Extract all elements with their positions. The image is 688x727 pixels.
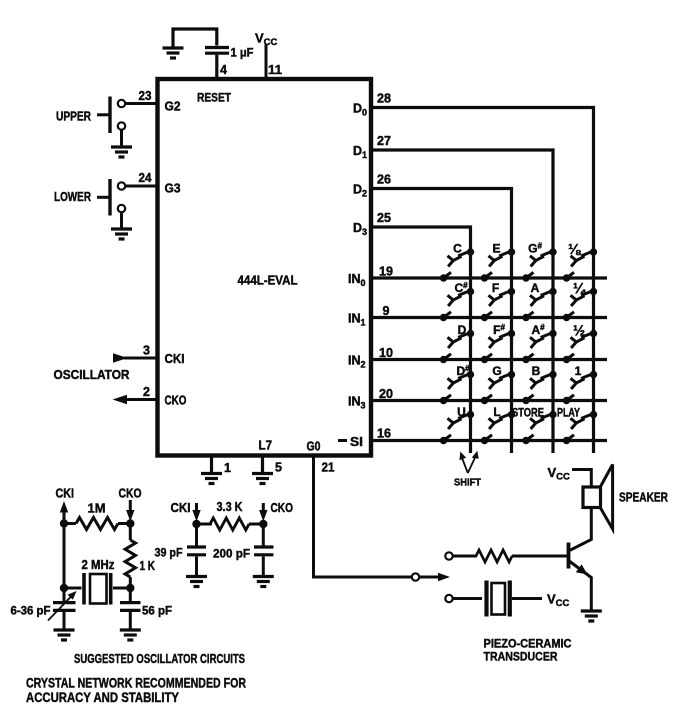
svg-text:2: 2 xyxy=(143,385,150,399)
wire node to resistor 3.3K xyxy=(197,523,213,526)
wire D2 to key matrix column 2 xyxy=(371,189,512,454)
wire SI key matrix row 5 xyxy=(371,439,607,442)
arrow CKI down to node xyxy=(195,503,198,512)
key switch PLAY xyxy=(563,411,597,444)
svg-text:CKI: CKI xyxy=(165,352,185,366)
wire IN0 key matrix row 1 xyxy=(371,276,607,279)
IC U1 444L-EVAL body xyxy=(158,79,372,456)
key switch B xyxy=(522,371,556,404)
svg-text:CKI: CKI xyxy=(171,501,191,515)
svg-text:RESET: RESET xyxy=(197,91,232,105)
wire CKO output xyxy=(126,398,158,401)
junction RC CKO node xyxy=(259,520,267,528)
wire switch UPPER to pin G2 xyxy=(125,102,157,105)
wire switch LOWER to pin G3 xyxy=(125,185,157,188)
svg-text:½: ½ xyxy=(573,324,585,340)
ground (200pF) xyxy=(253,577,274,587)
resistor R1 1M xyxy=(64,522,76,525)
pin 5 stub to ground xyxy=(261,457,264,473)
svg-text:L: L xyxy=(493,405,500,419)
svg-text:1: 1 xyxy=(224,461,231,475)
key switch 1/8 note xyxy=(563,248,597,281)
wire crystal right node to 56pF xyxy=(129,588,132,601)
crystal Y1 body xyxy=(90,574,107,604)
switch LOWER top terminal xyxy=(118,182,125,189)
wire CKI node to 39pF xyxy=(195,524,198,546)
ground (56pF) xyxy=(120,630,141,640)
wire oscillator input to CKI with arrow xyxy=(124,357,158,360)
transistor Q1 base bar xyxy=(567,543,571,569)
switch LOWER actuator stem xyxy=(97,196,110,199)
ground (pin 1) xyxy=(201,474,222,484)
wire CKO node to resistor 1K xyxy=(129,524,132,541)
svg-text:G0: G0 xyxy=(307,440,321,454)
svg-text:U: U xyxy=(457,405,466,419)
svg-text:G3: G3 xyxy=(165,181,181,196)
key switch C-sharp xyxy=(440,288,474,321)
key switch 1/4 note xyxy=(563,288,597,321)
arrow into CKI xyxy=(113,353,128,362)
switch UPPER top terminal xyxy=(118,100,125,107)
svg-text:PIEZO-CERAMIC: PIEZO-CERAMIC xyxy=(484,637,572,651)
svg-text:SHIFT: SHIFT xyxy=(454,477,482,489)
key switch D xyxy=(440,330,474,363)
emitter arrowhead xyxy=(576,564,588,574)
wire VCC to pin 11 xyxy=(265,45,268,80)
svg-text:3.3 K: 3.3 K xyxy=(217,500,243,514)
key switch A xyxy=(522,288,556,321)
ground (trimmer) xyxy=(54,630,75,640)
wire LOWER bottom terminal to ground xyxy=(120,212,123,228)
junction CKI node xyxy=(60,519,68,527)
svg-text:CKO: CKO xyxy=(119,487,142,501)
svg-text:A: A xyxy=(531,281,540,295)
svg-text:1M: 1M xyxy=(88,502,106,516)
wire CKI node down to crystal node xyxy=(63,524,66,589)
svg-text:D0: D0 xyxy=(353,102,367,118)
wire crystal node to trimmer cap xyxy=(63,588,66,601)
svg-text:2 MHz: 2 MHz xyxy=(82,558,115,572)
piezo transducer left plate xyxy=(484,581,488,617)
wire 1K to crystal node xyxy=(129,577,132,588)
key switch U xyxy=(440,411,474,444)
svg-text:4: 4 xyxy=(220,63,227,77)
svg-text:¼: ¼ xyxy=(573,282,587,298)
wire G0 pin 21 down and right xyxy=(314,457,412,577)
resistor R2 1K (vertical) xyxy=(125,540,135,577)
svg-text:LOWER: LOWER xyxy=(54,190,91,204)
wire D1 to key matrix column 3 xyxy=(371,150,553,453)
wire IN1 key matrix row 2 xyxy=(371,316,607,319)
key switch E xyxy=(481,248,515,281)
key switch D-sharp xyxy=(440,371,474,404)
capacitor C1 1uF plates xyxy=(205,48,229,54)
svg-text:1 K: 1 K xyxy=(140,559,156,573)
piezo transducer body xyxy=(492,583,506,615)
wire resistor to base xyxy=(512,555,569,558)
svg-text:IN1: IN1 xyxy=(348,312,366,328)
arrow G0 to transducer options xyxy=(438,573,450,582)
junction RC CKI node xyxy=(192,520,200,528)
key switch 1/2 note xyxy=(563,330,597,363)
svg-text:56 pF: 56 pF xyxy=(142,604,172,618)
wire 200pF to ground xyxy=(262,557,265,576)
switch LOWER bottom terminal xyxy=(118,205,125,212)
svg-text:27: 27 xyxy=(377,134,391,148)
svg-text:UPPER: UPPER xyxy=(56,110,91,124)
wire piezo terminal to crystal xyxy=(453,597,482,600)
svg-text:39 pF: 39 pF xyxy=(155,546,183,560)
svg-text:11: 11 xyxy=(268,63,282,77)
resistor R3 3.3K xyxy=(210,518,249,530)
SHIFT arrows xyxy=(462,456,477,474)
switch UPPER actuator bar xyxy=(108,97,111,134)
svg-text:G#: G# xyxy=(528,242,542,256)
svg-text:24: 24 xyxy=(139,171,152,185)
svg-text:1 μF: 1 μF xyxy=(231,46,254,60)
svg-text:TRANSDUCER: TRANSDUCER xyxy=(484,650,558,664)
piezo transducer right plate xyxy=(508,581,512,617)
speaker SP1 coil box xyxy=(583,487,601,508)
svg-text:D3: D3 xyxy=(353,221,367,237)
svg-text:26: 26 xyxy=(377,173,391,187)
switch UPPER bottom terminal xyxy=(118,122,125,129)
wire 39pF to ground xyxy=(195,557,198,576)
wire G0 terminal to arrow xyxy=(419,576,440,579)
crystal Y1 right plate xyxy=(109,573,113,605)
resistor R4 base resistor xyxy=(476,550,512,562)
trimmer arrow xyxy=(48,595,73,621)
svg-text:5: 5 xyxy=(275,461,282,475)
svg-text:IN3: IN3 xyxy=(348,395,366,411)
transistor Q1 emitter xyxy=(569,561,592,611)
wire D3 to key matrix column 1 xyxy=(371,227,471,453)
svg-text:CRYSTAL NETWORK RECOMMENDED FO: CRYSTAL NETWORK RECOMMENDED FOR xyxy=(26,676,246,691)
svg-text:IN0: IN0 xyxy=(348,272,366,288)
ground (emitter) xyxy=(581,611,602,621)
svg-text:21: 21 xyxy=(322,461,335,475)
svg-text:SPEAKER: SPEAKER xyxy=(619,491,668,505)
wire capacitor C1 to pin 4 xyxy=(215,55,218,79)
crystal Y1 leads xyxy=(64,587,130,590)
svg-text:D: D xyxy=(458,323,467,337)
svg-text:CKO: CKO xyxy=(165,394,187,408)
svg-text:G: G xyxy=(492,364,501,378)
svg-text:444L-EVAL: 444L-EVAL xyxy=(238,273,298,288)
svg-text:200 pF: 200 pF xyxy=(213,547,250,561)
svg-text:G2: G2 xyxy=(165,99,181,114)
svg-text:VCC: VCC xyxy=(547,592,570,610)
ground (LOWER switch) xyxy=(111,229,132,239)
svg-text:D2: D2 xyxy=(353,183,367,199)
svg-text:PLAY: PLAY xyxy=(557,408,580,420)
svg-text:L7: L7 xyxy=(259,439,273,453)
wire UPPER bottom terminal to ground xyxy=(120,130,123,146)
pin 1 stub to ground xyxy=(210,457,213,473)
ground (UPPER switch) xyxy=(111,147,132,157)
key switch L xyxy=(481,411,515,444)
capacitor C5 200pF plates xyxy=(254,547,274,555)
switch LOWER actuator bar xyxy=(108,179,111,216)
svg-text:STORE: STORE xyxy=(512,408,544,420)
key switch C xyxy=(440,248,474,281)
pin label SI xyxy=(338,439,347,442)
key switch F-sharp xyxy=(481,330,515,363)
svg-text:E: E xyxy=(492,242,500,256)
crystal Y1 left plate xyxy=(82,573,86,605)
wire D0 to key matrix column 4 xyxy=(371,108,594,454)
svg-text:D1: D1 xyxy=(353,144,367,160)
svg-text:CKI: CKI xyxy=(56,487,75,501)
capacitor C3 56pF plates xyxy=(120,603,141,611)
wire speaker to collector xyxy=(569,508,592,552)
key switch 1 note xyxy=(563,371,597,404)
svg-text:CKO: CKO xyxy=(271,501,294,515)
svg-text:⅛: ⅛ xyxy=(568,242,581,258)
svg-text:SUGGESTED OSCILLATOR CIRCUITS: SUGGESTED OSCILLATOR CIRCUITS xyxy=(74,651,245,666)
svg-text:16: 16 xyxy=(377,427,391,441)
svg-text:1: 1 xyxy=(575,364,582,378)
base terminal circle xyxy=(445,552,452,559)
svg-text:6-36 pF: 6-36 pF xyxy=(11,604,51,618)
trimmer capacitor C2 6-36pF plates xyxy=(53,603,76,611)
wire resistor to CKO node xyxy=(249,523,263,526)
wire base terminal to resistor xyxy=(453,555,477,558)
key switch G xyxy=(481,371,515,404)
wire 56pF to ground xyxy=(129,612,132,629)
speaker SP1 cone xyxy=(601,465,613,530)
ground (pin 5) xyxy=(252,474,273,484)
wire IN3 key matrix row 4 xyxy=(371,399,607,402)
arrow CKO down to node xyxy=(262,503,265,512)
svg-text:SI: SI xyxy=(350,435,363,449)
switch UPPER actuator stem xyxy=(97,113,110,116)
wire IN2 key matrix row 3 xyxy=(371,358,607,361)
svg-text:IN2: IN2 xyxy=(348,354,366,370)
svg-text:OSCILLATOR: OSCILLATOR xyxy=(54,367,131,382)
key switch A-sharp xyxy=(522,330,556,363)
svg-text:3: 3 xyxy=(143,344,150,358)
key switch G-sharp xyxy=(522,248,556,281)
wire trimmer to ground xyxy=(63,612,66,629)
G0 output terminal circle xyxy=(412,573,419,580)
junction crystal right xyxy=(126,584,134,592)
ground (39pF) xyxy=(186,577,207,587)
capacitor C4 39pF plates xyxy=(187,547,206,555)
wire piezo to VCC xyxy=(512,597,542,600)
key switch F xyxy=(481,288,515,321)
wire VCC to speaker xyxy=(572,470,591,488)
svg-text:25: 25 xyxy=(377,211,391,225)
svg-text:F: F xyxy=(492,281,499,295)
svg-text:VCC: VCC xyxy=(548,465,571,483)
svg-text:B: B xyxy=(532,364,541,378)
wire top bracket from ground to capacitor C1 xyxy=(173,29,217,47)
junction crystal left xyxy=(60,584,68,592)
wire CKO node to 200pF xyxy=(262,524,265,546)
key switch STORE xyxy=(522,411,556,444)
arrow CKO down xyxy=(129,500,132,512)
junction CKO node xyxy=(126,519,134,527)
svg-text:23: 23 xyxy=(139,89,152,103)
ground (top-left, reset capacitor) xyxy=(163,48,184,58)
svg-text:C: C xyxy=(453,242,462,256)
svg-text:28: 28 xyxy=(377,92,391,106)
arrow CKI up xyxy=(63,510,66,524)
piezo terminal circle xyxy=(445,595,452,602)
svg-text:ACCURACY AND STABILITY: ACCURACY AND STABILITY xyxy=(26,690,179,705)
arrow out of CKO xyxy=(113,395,128,404)
